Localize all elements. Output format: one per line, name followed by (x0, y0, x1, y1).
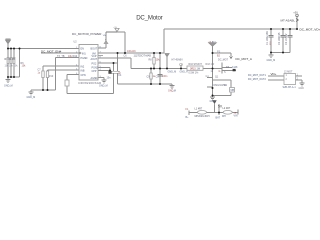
svg-text:_M: _M (172, 90, 176, 93)
svg-text:1u: 1u (38, 72, 41, 75)
svg-text:GND_M: GND_M (267, 59, 276, 62)
svg-text:GND_M: GND_M (27, 96, 36, 99)
svg-text:DC_Motor: DC_Motor (136, 15, 162, 22)
svg-text:0R15: 0R15 (190, 68, 196, 71)
svg-text:DC_MOTOR_POWER: DC_MOTOR_POWER (72, 32, 102, 36)
svg-text:ATT: ATT (212, 41, 217, 44)
svg-text:EN: EN (81, 47, 85, 50)
svg-text:DC_MOT_OUT2: DC_MOT_OUT2 (248, 78, 266, 81)
svg-text:1117ESOT-MAB: 1117ESOT-MAB (134, 55, 152, 58)
svg-text:MT-A5ABL: MT-A5ABL (281, 18, 296, 22)
svg-text:IN2: IN2 (81, 65, 85, 68)
svg-text:GND: GND (210, 100, 216, 103)
svg-text:G: G (219, 70, 221, 73)
svg-text:R10: R10 (49, 75, 54, 78)
svg-text:10k 10k 10k: 10k 10k 10k (5, 65, 19, 68)
svg-text:INB: INB (81, 69, 85, 72)
svg-text:GND_M: GND_M (168, 70, 177, 73)
svg-text:VM: VM (103, 35, 106, 37)
svg-text:4148: 4148 (232, 66, 238, 69)
svg-text:+5V: +5V (293, 10, 298, 14)
svg-text:S: S (224, 71, 226, 74)
svg-text:PS: PS (217, 51, 221, 54)
svg-text:R3 R4 R5: R3 R4 R5 (5, 58, 16, 61)
svg-text:DC_MOT_OUT1: DC_MOT_OUT1 (248, 74, 266, 77)
svg-text:VD+: VD+ (271, 72, 277, 76)
svg-text:+5V: +5V (113, 27, 117, 29)
svg-text:R8: R8 (149, 59, 153, 62)
svg-text:PG2: PG2 (92, 62, 97, 65)
svg-text:U2: U2 (74, 40, 78, 43)
svg-text:MB: MB (231, 89, 235, 92)
svg-text:DC_MOT_A: DC_MOT_A (236, 57, 252, 61)
svg-text:Q1: Q1 (215, 76, 219, 79)
svg-text:CPP: CPP (92, 70, 97, 73)
svg-text:CPN: CPN (81, 74, 86, 77)
svg-text:IN1: IN1 (82, 52, 86, 55)
svg-text:L2 4R7: L2 4R7 (223, 107, 231, 110)
svg-text:AGND: AGND (91, 77, 98, 80)
svg-text:F1: F1 (186, 108, 189, 111)
svg-text:R16 SHUNT: R16 SHUNT (189, 63, 203, 66)
svg-text:DC_MOT_VD+: DC_MOT_VD+ (300, 27, 320, 31)
svg-text:10n: 10n (107, 77, 112, 80)
svg-text:R18 1W: R18 1W (206, 63, 215, 66)
svg-text:DC_MOT: DC_MOT (218, 58, 229, 61)
svg-text:MH2029-300Y: MH2029-300Y (195, 115, 211, 118)
svg-text:10k: 10k (22, 65, 27, 68)
svg-text:PGND: PGND (81, 57, 88, 60)
svg-text:BAT: BAT (216, 117, 221, 120)
svg-text:HT-45ABV: HT-45ABV (172, 58, 184, 61)
svg-text:C2 100n/25: C2 100n/25 (278, 32, 281, 45)
svg-text:GND_A: GND_A (180, 70, 189, 73)
svg-text:0.5W 1%: 0.5W 1% (189, 71, 200, 74)
svg-text:C3 1n/50V: C3 1n/50V (285, 33, 288, 45)
svg-text:TX_TB: TX_TB (57, 55, 65, 58)
svg-text:B+: B+ (186, 116, 190, 119)
svg-text:D2: D2 (224, 84, 228, 87)
svg-text:L1 4R7: L1 4R7 (195, 107, 203, 110)
svg-text:B2: B2 (217, 54, 221, 57)
svg-text:GND_M: GND_M (4, 85, 13, 88)
svg-text:DC_MOT_EN#: DC_MOT_EN# (41, 50, 62, 54)
svg-text:BOUT: BOUT (91, 47, 98, 50)
svg-text:C6: C6 (124, 54, 128, 57)
svg-text:100n: 100n (162, 75, 168, 78)
svg-text:GND_M: GND_M (99, 84, 108, 87)
svg-text:5V: 5V (218, 105, 223, 109)
svg-text:100u/16: 100u/16 (127, 50, 136, 53)
svg-text:J2 MOT: J2 MOT (284, 71, 293, 74)
svg-text:VIN: VIN (234, 114, 238, 117)
svg-text:MH: MH (222, 115, 226, 118)
svg-text:S2B-XH-A-1: S2B-XH-A-1 (283, 86, 297, 89)
svg-text:C4: C4 (118, 74, 122, 77)
svg-text:GND: GND (299, 87, 305, 90)
svg-text:1k: 1k (211, 70, 214, 73)
svg-text:AOUT: AOUT (91, 58, 98, 61)
svg-text:DRV8220DSGR: DRV8220DSGR (79, 81, 102, 85)
svg-text:C1 100u/16V: C1 100u/16V (266, 31, 269, 45)
